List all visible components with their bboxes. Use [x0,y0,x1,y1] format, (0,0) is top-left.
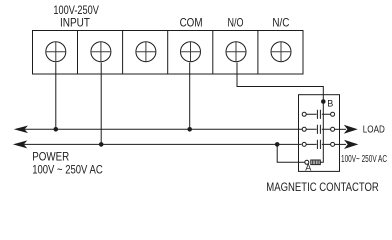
wire: N/O terminal down, right, to contactor coil B [237,63,323,163]
svg-text:LOAD: LOAD [363,125,385,136]
junction dot: L1 / COM [187,127,192,132]
wire: terminal1 down to power line L1 [55,63,57,130]
wire: coil tap from L2 down to coil A [277,144,305,162]
svg-text:N/O: N/O [228,15,244,29]
contact row 3 [302,140,334,149]
screw terminal 3 [136,42,156,62]
screw terminal 6 (N/C) [271,42,291,62]
svg-text:B: B [327,99,333,109]
svg-text:100V~ 250V AC: 100V~ 250V AC [341,154,387,165]
wire: terminal2 down to power line L2 [100,63,102,145]
svg-text:COM: COM [180,15,203,29]
arrowhead: power line L2 (left) [13,140,27,148]
screw terminal 2 [91,42,111,62]
coil element (hatched) [311,160,321,165]
screw terminal 4 (COM) [181,42,201,62]
wire: row2 to LOAD arrow [335,128,346,130]
wire: COM terminal down to power line L1 [189,63,191,130]
contact row 2 [302,125,334,134]
svg-text:MAGNETIC CONTACTOR: MAGNETIC CONTACTOR [266,180,379,194]
arrowhead: LOAD (right, row2) [344,125,358,134]
wire: row3 to lower load arrow [335,143,346,145]
arrowhead: power line L1 (left) [14,126,28,134]
svg-text:POWER: POWER [32,149,69,163]
screw terminal 5 (N/O) [226,42,246,62]
terminal block outline [33,31,304,75]
svg-text:N/C: N/C [272,15,289,29]
coil terminal circle A [305,160,309,164]
magnetic contactor box [299,95,340,172]
junction dot: coil B node [321,99,326,104]
terminal block cell dividers [78,31,258,75]
junction dot: L2 / coil tap [275,142,280,147]
contact row 1 [302,110,334,119]
screw terminal 1 [46,42,66,62]
wire: power line L2 (lower) [24,143,302,145]
junction dot: L2 / terminal2 [99,142,104,147]
junction dot: L1 / terminal1 [54,127,59,132]
arrowhead: load (right, row3) [344,140,358,149]
svg-text:100V ~ 250V AC: 100V ~ 250V AC [32,163,103,177]
svg-text:A: A [305,163,311,173]
svg-text:INPUT: INPUT [60,16,91,30]
wire: power line L1 (upper) [24,128,302,130]
